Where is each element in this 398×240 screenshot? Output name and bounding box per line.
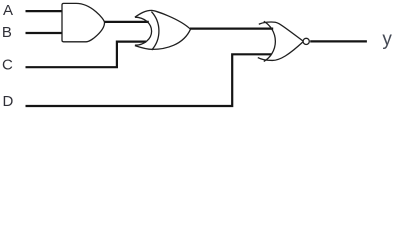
XOR gate U2 body input arc xyxy=(151,12,159,51)
wire NOR output to y xyxy=(310,40,367,42)
NOR gate U3 bottom edge xyxy=(258,41,304,60)
svg-text:D: D xyxy=(3,93,14,110)
XOR gate U2 leading input arc xyxy=(135,17,152,45)
wire B to AND input xyxy=(26,32,64,34)
wire AND output to XOR input xyxy=(104,21,149,23)
AND gate U1 body xyxy=(62,3,105,41)
svg-text:A: A xyxy=(3,2,13,19)
svg-text:y: y xyxy=(382,29,392,50)
NOR gate U3 body input arc xyxy=(264,21,276,61)
XOR gate U2 bottom edge xyxy=(135,29,191,49)
XOR gate U2 top edge xyxy=(135,10,191,29)
wire D to NOR input (with riser) xyxy=(26,54,272,106)
wire C to XOR input (with riser) xyxy=(26,42,147,68)
NOR gate U3 top edge xyxy=(259,22,304,41)
svg-text:B: B xyxy=(2,24,12,41)
wire A to AND input xyxy=(26,10,64,12)
NOR gate U3 inversion bubble xyxy=(303,38,309,44)
svg-text:C: C xyxy=(2,56,13,73)
wire XOR output to NOR input xyxy=(190,28,273,30)
